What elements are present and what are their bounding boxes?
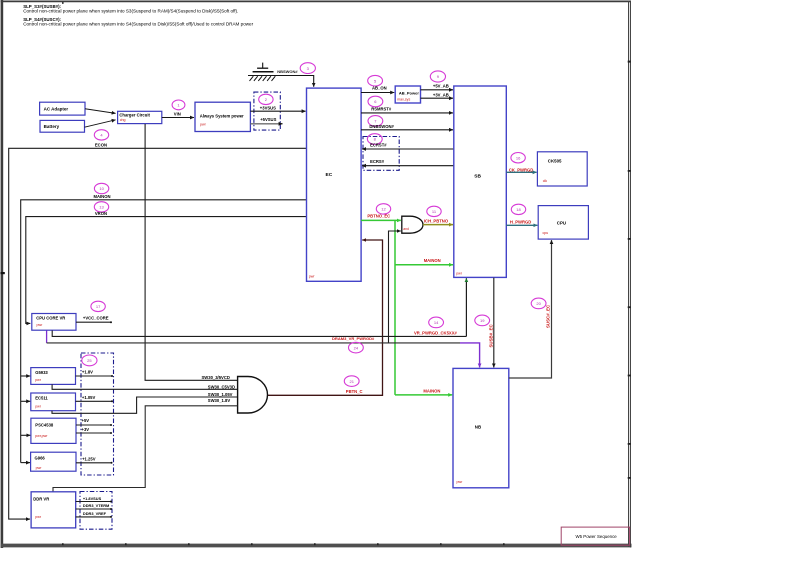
svg-text:18: 18 [516,207,521,212]
and gate U3 big [238,377,268,414]
and gate U2 [402,216,423,233]
circle 5 [368,75,383,86]
wire +VCC_CORE output [76,321,111,323]
wire NBSWON# button to EC top [248,76,314,87]
wire RSMRST# EC to SB [361,112,453,114]
svg-text:6: 6 [374,99,377,104]
svg-text:G966: G966 [35,455,46,460]
svg-text:5: 5 [374,78,377,83]
svg-text:Control non-critical power pla: Control non-critical power plane when sy… [23,21,253,26]
svg-text:+5V_AB: +5V_AB [433,84,449,89]
wire VR2 output [76,400,113,402]
svg-text:SW30_3/5VCD: SW30_3/5VCD [202,375,230,380]
svg-text:+3VSUS: +3VSUS [260,106,276,111]
svg-text:cpu: cpu [543,231,549,235]
svg-text:VR_PWRGD_CK5XX#: VR_PWRGD_CK5XX# [414,331,457,336]
wire Battery to Charger [85,120,116,127]
svg-text:G5933: G5933 [35,370,48,375]
svg-text:8: 8 [374,137,377,142]
circle 18 [511,204,525,214]
zone tick mark top border [62,2,64,4]
svg-text:pwr: pwr [35,378,42,382]
svg-text:+5V: +5V [82,418,90,423]
wire ECON from EC left to x8.7 bus [9,148,307,519]
wire AC Adapter to Charger [85,109,116,114]
wire purple SUSC into NB top [460,343,480,368]
circle 9 [430,71,445,82]
wire VR4 output [76,462,112,464]
wire +5V_AB [421,89,454,91]
wire SB bottom to VR_PWRGD line with green arrow [465,278,467,336]
block Charger Circuit [118,111,162,123]
svg-text:CPU: CPU [557,221,566,226]
svg-text:DDR3_VTERM: DDR3_VTERM [83,503,109,508]
svg-text:AB_ON: AB_ON [372,86,387,91]
svg-text:24: 24 [354,345,359,350]
block DDR VR [31,492,76,528]
svg-text:ECRST#: ECRST# [370,142,387,147]
svg-text:NBSWON#: NBSWON# [277,69,298,74]
wire ECRST# SB to EC [362,148,454,150]
zone tick marks bottom border [62,543,505,545]
circle 4 [94,130,108,140]
svg-text:+3V: +3V [82,427,90,432]
svg-text:clk: clk [543,179,548,183]
svg-text:CK_PWRGD: CK_PWRGD [509,167,533,172]
svg-text:+3V_AB: +3V_AB [433,92,449,97]
wire VR3 output2 [76,432,111,434]
svg-text:MAINON: MAINON [94,194,111,199]
wire VR1 pwrgd to gate input 2 [52,384,237,389]
wire into VR1 [21,375,31,377]
svg-text:CPU CORE VR: CPU CORE VR [36,316,65,321]
circle 2 [259,94,273,104]
block VR4 G966 [31,452,76,471]
svg-text:SUSC#_EC: SUSC#_EC [546,304,551,328]
svg-text:PBTN_C: PBTN_C [346,389,363,394]
block CPU [538,206,588,240]
svg-text:Always System power: Always System power [200,114,244,119]
svg-text:DDR3_VREF: DDR3_VREF [83,511,107,516]
svg-text:Control non-critical power pla: Control non-critical power plane when sy… [23,8,238,13]
svg-text:ECON: ECON [95,143,107,148]
power button symbol stem [262,63,264,69]
wire NB to CPU bottom [509,240,552,378]
block VR3 PSC4538 [31,418,76,443]
circle 10 [94,183,108,193]
svg-text:ICH_PBTNO: ICH_PBTNO [424,218,449,223]
wire green MAINON into NB [395,394,452,396]
power button symbol plate [253,71,274,73]
svg-text:12: 12 [381,207,386,212]
svg-text:RSMRST#: RSMRST# [371,107,392,112]
circle 11 [427,206,441,216]
block VR2 EC511 [31,393,76,411]
wire DNBSWON# EC to SB [361,129,453,131]
svg-text:and: and [403,227,409,231]
circle 21 [344,376,359,387]
wire into VR2 [21,400,31,402]
svg-text:W5 Power Sequence: W5 Power Sequence [576,534,618,539]
svg-text:2: 2 [265,97,268,102]
wire into VR4 [21,462,30,464]
wire ECRS# SB to EC [362,165,454,167]
circle 14 [429,317,444,328]
wire green PBTNO_EC EC to AND gate [361,219,401,221]
svg-text:DNBSWON#: DNBSWON# [369,124,394,129]
svg-text:MAINON: MAINON [424,258,441,263]
power button symbol crossbar [257,67,268,69]
wire SUSC line y343 purple drop from CPU CORE VR [46,331,48,343]
zone tick right border [628,61,631,479]
svg-text:pwr: pwr [457,480,464,484]
svg-text:+5VSUS: +5VSUS [260,117,276,122]
wire maroon SUSB into EC [268,240,383,395]
wire MAINON from EC left to x20.7 bus feeding VR boxes [21,200,307,463]
svg-text:SUSB#_EC: SUSB#_EC [489,323,494,347]
drawing frame right border outer [629,1,631,548]
ground hatch [250,76,276,81]
block SB [454,86,507,277]
svg-text:MAINON: MAINON [423,389,440,394]
svg-text:pwr: pwr [456,272,463,276]
circle 1 [172,100,185,110]
wire olive gate output to SB [423,224,453,226]
svg-text:13: 13 [99,205,104,210]
svg-text:17: 17 [96,304,101,309]
wire teal SB to CPU [506,224,537,226]
wire SUSB# SB bottom into NB top [493,278,495,368]
svg-text:NB: NB [475,424,481,429]
svg-text:3: 3 [307,66,310,71]
block EC [307,88,362,281]
dashed box around +3VSUS +5VSUS [254,92,280,130]
svg-text:AC Adapter: AC Adapter [44,106,69,111]
dashed box DDR outputs [80,492,112,530]
circle 3 [300,63,315,74]
block NB [453,368,509,487]
dashed box VR outputs [81,353,114,475]
svg-text:VRON: VRON [95,211,107,216]
wire +3V_AB [421,97,454,99]
svg-text:1: 1 [177,103,180,108]
svg-text:14: 14 [434,320,439,325]
svg-text:9: 9 [437,74,440,79]
circle 7 [368,116,383,127]
wire green MAINON into SB [395,264,453,266]
drawing frame bottom border [1,544,632,548]
circle 25 [82,355,97,366]
circle 12 [376,204,390,214]
svg-text:PSC4538: PSC4538 [35,423,54,428]
block VR1 G5933 [31,368,76,385]
svg-text:EC: EC [326,172,333,178]
svg-text:CK505: CK505 [548,159,562,164]
circle 16 [511,153,525,163]
svg-text:+VCC_CORE: +VCC_CORE [83,316,109,321]
svg-text:EC511: EC511 [35,395,48,400]
svg-text:pwr: pwr [309,275,316,279]
wire SUSC line y343 [47,342,460,344]
svg-text:4: 4 [100,133,103,138]
svg-text:+1.25V: +1.25V [82,457,96,462]
wire into VR3 [21,434,31,436]
svg-text:SW30_1.8V: SW30_1.8V [208,398,231,403]
wire VR3 output1 [76,424,111,426]
block AC Adapter [40,102,85,115]
block CPU CORE VR [32,314,76,331]
wire VR1 output [76,375,113,377]
svg-text:SW30_C5V3D: SW30_C5V3D [208,385,235,390]
wire VR_PWRGD line y336 [52,331,466,337]
svg-text:max,sys: max,sys [397,97,410,101]
svg-text:11: 11 [432,209,437,214]
wire DDR output3 [76,516,111,518]
dashed box around ECRST nets [363,137,399,171]
block CK505 [537,152,587,186]
wire DDR pwrok riser to gate input 4 [53,406,237,492]
svg-text:10: 10 [99,186,104,191]
drawing frame left border [1,0,4,548]
wire VIN vertical drop from charger bottom to AND gate input 1 [145,124,237,380]
svg-text:pwr,pwr: pwr,pwr [35,434,48,438]
wire +3VSUS into EC [250,110,305,112]
block AB_Power [395,86,420,103]
svg-text:ECRS#: ECRS# [370,159,385,164]
svg-text:16: 16 [516,155,521,160]
circle 13 [94,202,108,212]
wire DDR output1 [76,501,111,503]
block Always System power [195,102,250,131]
svg-text:SW30_1.05V: SW30_1.05V [208,392,233,397]
svg-text:pwr: pwr [35,515,42,519]
circle 24 [349,342,364,353]
svg-text:+1.05V: +1.05V [82,395,96,400]
circle 19 [475,315,490,326]
wire green vertical branch [394,220,396,395]
svg-text:DRAM3_VR_PWRGD#: DRAM3_VR_PWRGD# [332,336,375,341]
svg-text:pwr: pwr [36,466,43,470]
svg-text:VIN: VIN [174,111,181,116]
svg-text:+1.8VSUS: +1.8VSUS [83,496,102,501]
svg-text:pwr: pwr [200,123,207,127]
wire DDR output2 [76,508,111,510]
title block border [561,527,629,545]
wire +5VSUS stub [250,123,282,125]
svg-text:25: 25 [87,358,92,363]
zone tick left border [0,272,4,274]
drawing frame top border [1,0,631,2]
wire VIN Charger to Always power [162,117,194,119]
svg-text:Charger Circuit: Charger Circuit [119,113,150,118]
wire AB_ON EC to AB_Power [361,92,394,94]
circle 8 [367,134,382,145]
wire teal SB to CK505 [506,171,536,173]
wire VR2 pwrgd to gate input 3 [52,397,237,413]
svg-text:19: 19 [480,318,485,323]
svg-text:21: 21 [349,379,354,384]
block Battery [40,120,85,132]
wire VRON from EC left to x25.8 bus [26,217,307,324]
svg-text:PBTNO_EC: PBTNO_EC [367,214,390,219]
svg-text:pwr: pwr [37,323,44,327]
svg-text:H_PWRGD: H_PWRGD [510,219,531,224]
svg-text:7: 7 [374,119,377,124]
svg-text:20: 20 [536,301,541,306]
svg-text:AB_Power: AB_Power [399,91,419,96]
svg-text:Battery: Battery [44,124,60,129]
svg-text:pwr: pwr [35,405,42,409]
drawing frame right border inner [628,1,630,547]
svg-text:chg: chg [120,118,126,122]
svg-text:+1.8V: +1.8V [82,369,93,374]
svg-text:SB: SB [474,173,481,179]
circle 17 [91,301,105,311]
wire black AND gate input 2 [389,231,401,343]
circle 20 [531,298,546,309]
svg-text:DDR VR: DDR VR [33,496,49,501]
circle 6 [368,96,383,107]
